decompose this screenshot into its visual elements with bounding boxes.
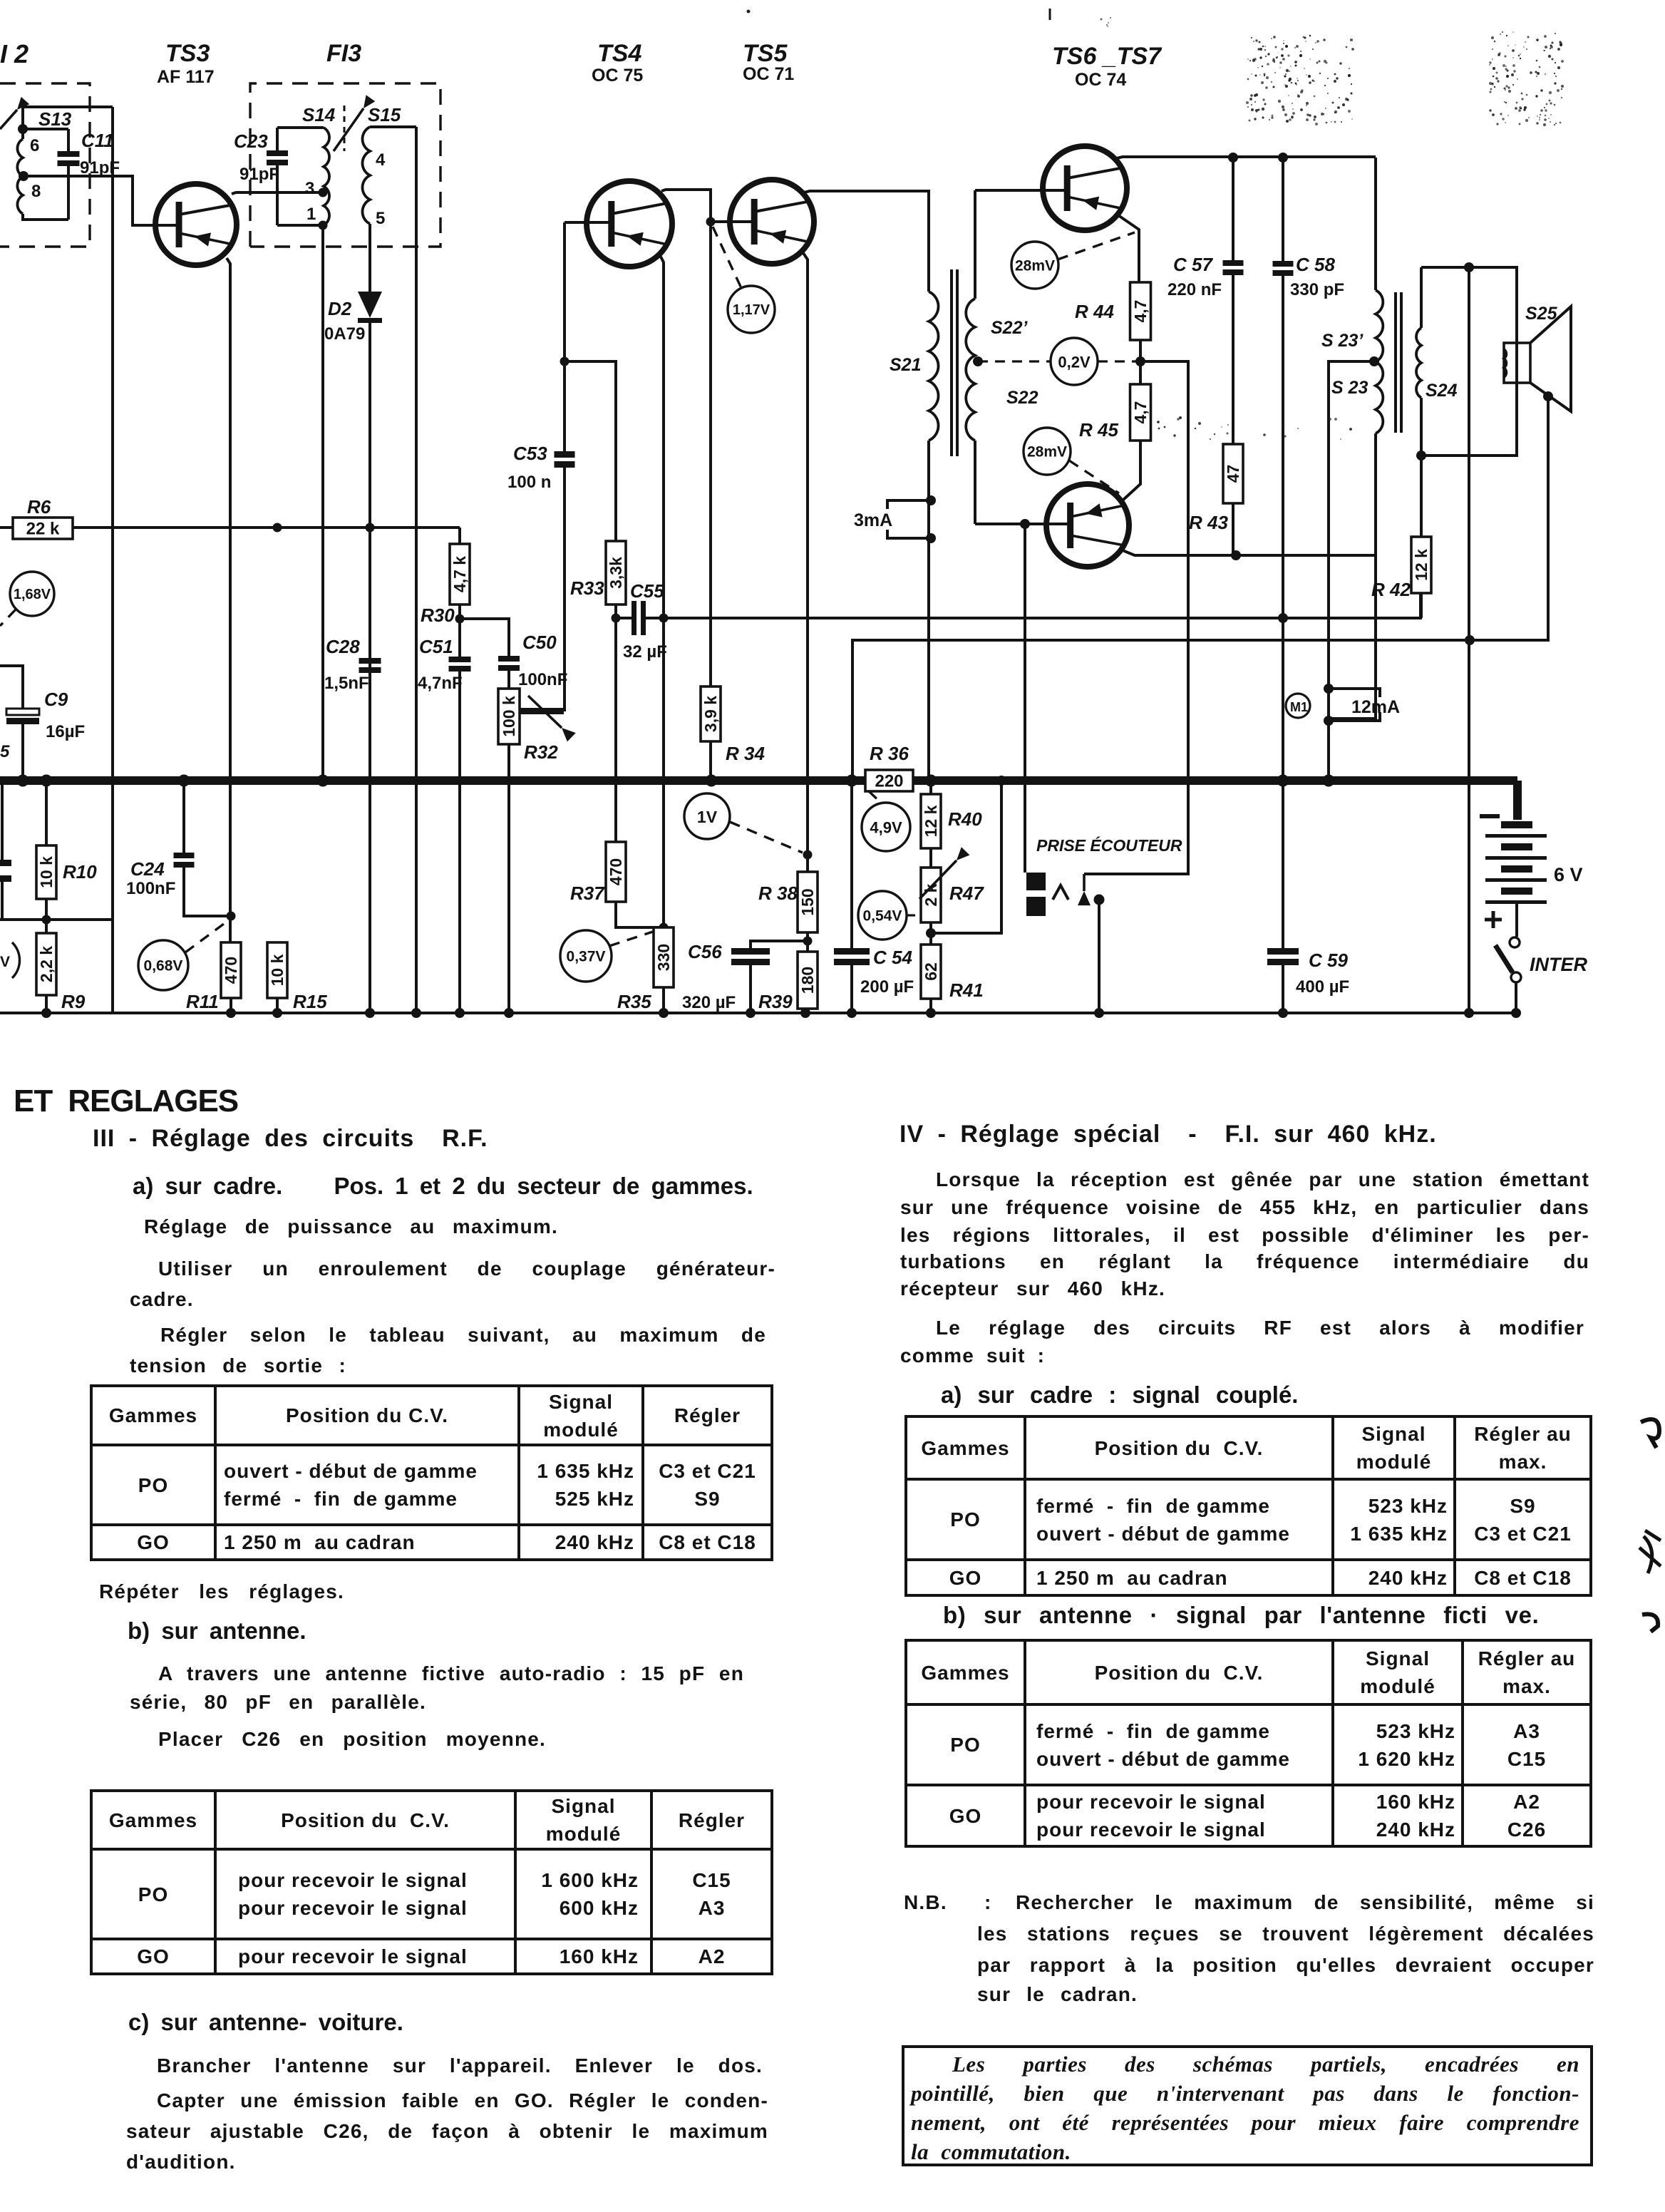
svg-text:C56: C56 xyxy=(688,941,722,962)
coil S15 xyxy=(362,127,370,224)
wire TS7 collector line xyxy=(1119,549,1375,555)
svg-text:320 µF: 320 µF xyxy=(682,993,736,1012)
node TS4 base branch xyxy=(560,357,569,366)
node R33 bottom xyxy=(614,605,617,618)
resistor R40 12k xyxy=(929,781,932,794)
node jack contact xyxy=(1094,895,1105,905)
svg-text:32 µF: 32 µF xyxy=(623,642,667,662)
svg-text:R6: R6 xyxy=(27,496,51,518)
wire S13 tap to TS3 base xyxy=(24,176,180,225)
wire to R30 xyxy=(458,528,461,544)
svg-text:100nF: 100nF xyxy=(126,879,175,898)
coil S14 xyxy=(324,128,329,225)
voltage circle 0,2V xyxy=(1051,338,1098,385)
svg-text:150: 150 xyxy=(798,888,817,915)
cut voltage circle at left edge xyxy=(12,942,20,978)
svg-text:330: 330 xyxy=(654,944,673,971)
node R35 top xyxy=(659,923,669,932)
svg-text:R40: R40 xyxy=(948,808,982,830)
battery 6V xyxy=(1480,814,1500,818)
svg-text:C53: C53 xyxy=(513,443,547,464)
resistor R35 330 xyxy=(654,927,674,987)
wire S23 tap to 12mA meter xyxy=(1329,361,1374,781)
node C24-R11 junction xyxy=(227,912,236,921)
svg-text:28mV: 28mV xyxy=(1027,444,1067,461)
svg-text:C9: C9 xyxy=(44,689,68,710)
ground return rail xyxy=(0,1012,1517,1014)
capacitor C57 220nF xyxy=(1232,158,1234,260)
svg-text:OC 71: OC 71 xyxy=(743,64,794,84)
voltage circle 117V xyxy=(728,286,775,333)
coil S21 xyxy=(929,292,939,441)
capacitor C58 330pF xyxy=(1282,158,1284,261)
jack switch arrow xyxy=(1083,874,1086,891)
svg-text:C11: C11 xyxy=(81,130,114,151)
capacitor C54 200uF xyxy=(850,781,853,948)
svg-text:TS6 _TS7: TS6 _TS7 xyxy=(1052,43,1163,70)
switch INTER xyxy=(1510,937,1520,947)
wire R45 to TS7 emitter xyxy=(1123,441,1140,500)
wire speaker branch down xyxy=(1468,267,1470,1013)
svg-text:TS5: TS5 xyxy=(743,40,788,67)
svg-text:R 42: R 42 xyxy=(1371,579,1411,600)
bus junction dots xyxy=(17,775,29,787)
svg-text:S13: S13 xyxy=(38,108,72,130)
svg-text:470: 470 xyxy=(222,957,240,984)
wire S22 bottom to TS7 base xyxy=(975,523,1071,525)
node R6 line x519 xyxy=(366,523,375,533)
wire R30 bottom to C50 xyxy=(460,619,509,656)
svg-text:12 k: 12 k xyxy=(1412,549,1431,581)
svg-text:12 k: 12 k xyxy=(922,805,940,837)
earphone jack plug xyxy=(1026,873,1046,890)
node S24 bottom xyxy=(1416,451,1426,461)
svg-text:0,54V: 0,54V xyxy=(863,908,902,925)
svg-text:10 k: 10 k xyxy=(37,856,56,888)
svg-text:R30: R30 xyxy=(421,605,455,626)
wire C23 top to S14 top xyxy=(277,126,324,129)
tuning arrow FI2 xyxy=(0,110,17,129)
svg-text:OC 74: OC 74 xyxy=(1075,70,1126,90)
resistor R30 4,7k xyxy=(450,544,470,605)
wire TS3 collector to S14 pin 3 xyxy=(232,192,322,194)
wire TS4 collector to TS5 base xyxy=(661,190,711,686)
node S13 tap junction xyxy=(19,171,29,181)
wire TS3 emitter down to R11 xyxy=(227,258,230,942)
svg-text:1: 1 xyxy=(306,205,316,224)
wire TS7 base branch to jack xyxy=(1024,524,1026,873)
transistor TS5 OC71 xyxy=(730,180,814,264)
wire feedback midpoint down to earphone switch xyxy=(1084,361,1188,874)
svg-text:S25: S25 xyxy=(1525,304,1558,324)
wire TS6 collector line xyxy=(1117,157,1376,158)
voltage circle 4,9V xyxy=(862,803,910,851)
svg-text:28mV: 28mV xyxy=(1015,258,1055,274)
node S24 top branch xyxy=(1464,262,1474,272)
svg-text:5: 5 xyxy=(376,209,385,228)
svg-text:6: 6 xyxy=(30,136,39,155)
wire R32 to ground rail xyxy=(507,744,510,1013)
resistor R10 10k xyxy=(45,781,48,845)
svg-text:C 54: C 54 xyxy=(873,947,912,968)
svg-text:M1: M1 xyxy=(1290,700,1308,714)
node R30 bottom xyxy=(458,605,461,619)
svg-text:47: 47 xyxy=(1224,465,1242,483)
svg-text:R33: R33 xyxy=(570,577,604,599)
resistor R9 2,2k xyxy=(45,920,48,933)
svg-text:400 µF: 400 µF xyxy=(1296,977,1349,997)
svg-text:330 pF: 330 pF xyxy=(1290,280,1344,299)
svg-text:S24: S24 xyxy=(1426,381,1458,401)
capacitor C59 400uF xyxy=(1267,948,1299,955)
resistor R15 10k xyxy=(267,942,287,998)
svg-text:6 V: 6 V xyxy=(1554,864,1583,885)
svg-text:R47: R47 xyxy=(949,883,984,904)
coil S23 with tap xyxy=(1374,158,1377,290)
node TS6 collector x1800 xyxy=(1278,153,1288,163)
svg-text:TS3: TS3 xyxy=(165,40,210,67)
svg-text:22 k: 22 k xyxy=(26,520,60,539)
svg-text:4: 4 xyxy=(376,150,386,170)
svg-text:R39: R39 xyxy=(758,991,793,1012)
current tap 12mA with meter M1 xyxy=(1324,684,1334,694)
wire S14 pin1 down xyxy=(321,225,324,781)
photocopy noise xyxy=(1281,48,1283,50)
loudspeaker S25 xyxy=(1504,343,1530,383)
svg-text:FI3: FI3 xyxy=(326,40,361,67)
capacitor C56 320uF xyxy=(751,941,808,948)
voltage circle 0,37V xyxy=(560,930,612,982)
capacitor C50 100nF xyxy=(498,656,520,662)
voltage circle 1V xyxy=(684,793,730,839)
resistor R44 4,7 xyxy=(1130,282,1151,340)
resistor R45 4,7 xyxy=(1130,384,1151,441)
svg-text:220 nF: 220 nF xyxy=(1167,280,1222,299)
svg-text:R 38: R 38 xyxy=(758,883,798,904)
wire TS4 base from volume pot xyxy=(565,221,612,224)
voltage circle 28mV lower xyxy=(1024,428,1071,475)
svg-text:I 2: I 2 xyxy=(0,39,29,68)
long vertical wire x158 xyxy=(111,107,114,1013)
svg-text:5: 5 xyxy=(0,742,10,761)
svg-text:C 59: C 59 xyxy=(1309,950,1348,971)
wire S15 right branch down xyxy=(415,127,418,1013)
capacitor C24 100nF xyxy=(182,781,185,853)
svg-text:4,7: 4,7 xyxy=(1131,401,1150,424)
resistor R38 150 xyxy=(806,855,809,872)
svg-text:INTER: INTER xyxy=(1530,954,1588,975)
svg-text:0,68V: 0,68V xyxy=(144,958,183,974)
transistor TS7 OC74 xyxy=(1046,484,1129,567)
node TS6 collector x1730 xyxy=(1228,153,1238,163)
node speaker bottom xyxy=(1543,391,1553,401)
svg-text:100 n: 100 n xyxy=(507,473,551,492)
stray mark top xyxy=(747,10,751,14)
wire D2 to AGC line xyxy=(368,323,371,1013)
transistor TS4 OC75 xyxy=(587,181,672,267)
svg-text:R11: R11 xyxy=(186,991,219,1012)
svg-text:12mA: 12mA xyxy=(1351,697,1400,717)
svg-text:3,3k: 3,3k xyxy=(607,557,625,589)
svg-text:62: 62 xyxy=(922,962,940,981)
transformer core S21/S22 xyxy=(950,269,953,456)
svg-text:R41: R41 xyxy=(949,979,984,1001)
svg-text:200 µF: 200 µF xyxy=(860,977,914,997)
node R43 bottom junction xyxy=(1231,550,1241,560)
node S13 top junction xyxy=(18,124,28,134)
bus corner to battery xyxy=(1513,781,1522,820)
svg-text:0A79: 0A79 xyxy=(324,324,365,344)
resistor R37 470 xyxy=(614,618,617,842)
svg-text:S 23: S 23 xyxy=(1331,378,1368,398)
rail junction dots xyxy=(41,1008,51,1018)
resistor R34 3,9k xyxy=(701,686,721,741)
transistor TS6 OC74 xyxy=(1043,146,1127,230)
svg-text:4,9V: 4,9V xyxy=(870,819,902,837)
svg-text:100 k: 100 k xyxy=(500,696,518,737)
svg-text:100nF: 100nF xyxy=(518,670,567,689)
resistor R11 470 xyxy=(221,942,241,998)
wire S21 bottom to bus xyxy=(927,441,930,781)
svg-text:S22’: S22’ xyxy=(991,318,1028,338)
wire S15 top to right branch xyxy=(370,125,416,128)
wire S22 top to TS6 base xyxy=(975,189,1068,192)
capacitor C55 32uF xyxy=(632,601,636,635)
node speaker return xyxy=(1465,635,1475,645)
wire R47 bottom to bus xyxy=(931,781,1001,933)
wire speaker to return line xyxy=(852,396,1548,781)
capacitor C53 100n xyxy=(555,451,575,458)
node S14 pin1 xyxy=(319,221,328,230)
svg-text:S21: S21 xyxy=(890,355,921,375)
node C58 feedback junction xyxy=(1278,613,1288,623)
svg-text:TS4: TS4 xyxy=(597,40,641,67)
svg-text:16µF: 16µF xyxy=(46,722,85,741)
chassis bus line xyxy=(0,776,865,785)
node R38 top xyxy=(803,850,813,860)
transformer core S23/S24 xyxy=(1394,292,1397,433)
svg-text:1,17V: 1,17V xyxy=(733,302,770,318)
wire TS4 base line down through C53 xyxy=(563,222,566,711)
svg-text:R 34: R 34 xyxy=(726,743,765,764)
svg-text:4,7nF: 4,7nF xyxy=(418,674,463,693)
svg-text:C51: C51 xyxy=(419,636,453,657)
coil S22 with tap xyxy=(974,190,976,299)
svg-text:C23: C23 xyxy=(234,130,268,152)
resistor R42 12k xyxy=(1420,456,1423,537)
svg-text:1,68V: 1,68V xyxy=(14,587,51,602)
capacitor C23 91pF xyxy=(267,150,288,156)
svg-text:D2: D2 xyxy=(328,298,352,319)
coil S13 xyxy=(21,107,24,139)
svg-text:C 58: C 58 xyxy=(1296,254,1335,275)
wire TS5 collector to S21 xyxy=(804,191,929,292)
node R44-R45 midpoint xyxy=(1139,340,1142,384)
svg-text:C24: C24 xyxy=(130,858,165,880)
resistor R43 47 xyxy=(1223,444,1243,503)
wire S13 top to long vertical xyxy=(23,106,113,108)
svg-text:R 36: R 36 xyxy=(870,743,909,764)
dashed box FI3 xyxy=(250,83,440,247)
svg-text:3: 3 xyxy=(305,179,314,198)
node R10 bottom xyxy=(42,915,51,925)
resistor R41 62 xyxy=(921,945,941,999)
svg-text:R37: R37 xyxy=(570,883,605,904)
svg-text:S15: S15 xyxy=(368,104,401,125)
svg-text:AF 117: AF 117 xyxy=(157,67,215,87)
svg-text:C28: C28 xyxy=(326,636,360,657)
wire C23 bottom to S14 pin 1 xyxy=(277,224,322,227)
wire TS4 emitter down xyxy=(661,257,664,927)
voltage circle 0,54V xyxy=(858,891,907,940)
svg-text:10 k: 10 k xyxy=(268,954,287,986)
node S23 tap xyxy=(1369,356,1379,366)
current tap 3mA xyxy=(926,495,936,505)
node R38-R39 junction xyxy=(806,932,809,952)
svg-text:8: 8 xyxy=(31,182,41,201)
resistor R39 180 xyxy=(798,952,818,1009)
node TS5 base junction xyxy=(706,217,716,227)
svg-text:R35: R35 xyxy=(617,991,651,1012)
svg-text:C 57: C 57 xyxy=(1173,254,1213,275)
coil S24 xyxy=(1420,267,1423,328)
svg-text:4,7: 4,7 xyxy=(1131,300,1150,323)
node R6 line x389 xyxy=(273,523,282,533)
svg-text:3mA: 3mA xyxy=(854,510,892,530)
node TS7 base branch xyxy=(1020,519,1030,529)
resistor R33 3,3k xyxy=(606,541,626,605)
svg-text:PRISE ÉCOUTEUR: PRISE ÉCOUTEUR xyxy=(1036,835,1182,855)
tuning arrow S14-S15 xyxy=(344,106,346,151)
svg-text:1,5nF: 1,5nF xyxy=(324,674,369,693)
svg-text:S14: S14 xyxy=(302,104,336,125)
wire TS6 emitter to R44 xyxy=(1116,214,1139,282)
diode D2 0A79 xyxy=(358,292,382,318)
svg-text:1V: 1V xyxy=(697,808,718,826)
dashed box FI2 (partial) xyxy=(0,83,90,247)
wire S24 top loop xyxy=(1421,267,1517,456)
transistor TS3 AF117 xyxy=(155,184,237,265)
potentiometer R32 100k xyxy=(498,689,520,744)
capacitor C9 16uF xyxy=(0,666,23,709)
potentiometer R47 2k xyxy=(929,848,932,868)
wire S23 bottom to TS7 collector line xyxy=(1329,433,1376,719)
svg-text:OC 75: OC 75 xyxy=(592,66,643,86)
svg-text:R10: R10 xyxy=(63,861,97,883)
svg-text:0,37V: 0,37V xyxy=(567,949,606,965)
voltage circle 0,68V xyxy=(138,940,188,990)
svg-text:C55: C55 xyxy=(630,580,664,602)
svg-text:R 45: R 45 xyxy=(1079,419,1118,441)
voltage circle 1,68V xyxy=(10,572,54,616)
svg-text:V: V xyxy=(0,954,10,970)
node R47 bottom xyxy=(929,922,932,945)
wire battery to switch xyxy=(1515,903,1518,937)
node S22 tap xyxy=(973,356,983,366)
svg-text:2,2 k: 2,2 k xyxy=(37,946,56,982)
svg-text:180: 180 xyxy=(798,967,817,994)
svg-text:470: 470 xyxy=(607,858,625,885)
svg-text:R 44: R 44 xyxy=(1075,301,1114,322)
capacitor C11 91pF xyxy=(67,129,70,220)
svg-text:R 43: R 43 xyxy=(1189,512,1228,533)
svg-text:220: 220 xyxy=(875,772,903,791)
svg-text:0,2V: 0,2V xyxy=(1058,354,1091,371)
svg-text:C50: C50 xyxy=(522,632,557,653)
node S14 pin3 xyxy=(319,188,328,197)
feedback wire C55 to C58/R42 xyxy=(664,593,1421,618)
svg-text:R15: R15 xyxy=(293,991,327,1012)
wire S15 bottom to D2 xyxy=(368,224,371,292)
capacitor C51 4,7nF xyxy=(458,619,461,657)
svg-text:S 23’: S 23’ xyxy=(1321,331,1364,351)
capacitor C28 1,5nF xyxy=(359,658,381,664)
svg-text:R9: R9 xyxy=(61,991,86,1012)
voltage circle 28mV upper xyxy=(1011,242,1058,289)
svg-text:S22: S22 xyxy=(1006,388,1038,408)
svg-text:3,9 k: 3,9 k xyxy=(701,696,720,732)
wire branch to R33 xyxy=(565,361,616,541)
wire TS5 emitter down to R38 xyxy=(803,253,808,855)
svg-text:91pF: 91pF xyxy=(239,165,279,184)
cut capacitor at left edge xyxy=(1,781,4,860)
svg-text:4,7 k: 4,7 k xyxy=(450,556,469,592)
svg-text:R32: R32 xyxy=(524,741,558,763)
